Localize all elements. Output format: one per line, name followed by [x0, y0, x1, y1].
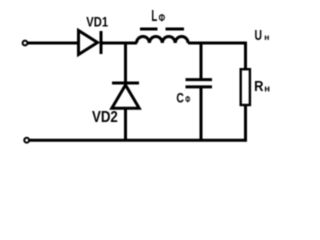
capacitor Cf top plate [186, 78, 213, 81]
wire VD2 to bottom [124, 108, 127, 140]
diode VD2 triangle [112, 85, 139, 108]
capacitor Cf bottom plate [186, 85, 213, 88]
svg-text:Ф: Ф [185, 94, 191, 105]
terminal top input [23, 41, 28, 46]
wire VD1 to inductor [101, 42, 137, 45]
terminal bottom input [24, 138, 29, 143]
diode VD1 [79, 31, 102, 55]
inductor core bar left [140, 28, 158, 31]
wire node to VD2 [124, 43, 127, 82]
svg-text:Ф: Ф [159, 12, 165, 25]
svg-text:VD2: VD2 [92, 109, 118, 126]
svg-text:н: н [264, 83, 270, 94]
diode VD2 cathode bar [112, 82, 139, 85]
svg-text:L: L [151, 7, 157, 25]
svg-text:н: н [264, 32, 269, 42]
wire node to capacitor [200, 43, 203, 79]
svg-text:C: C [176, 90, 184, 106]
wire input to VD1 [28, 42, 78, 45]
wire right rail to resistor [244, 42, 247, 69]
svg-text:VD1: VD1 [86, 14, 108, 29]
svg-text:R: R [254, 77, 263, 94]
inductor core bar right [166, 28, 185, 31]
inductor Lf winding [137, 37, 189, 43]
svg-text:U: U [255, 28, 262, 44]
bottom wire [30, 139, 247, 142]
resistor Rn [241, 69, 250, 105]
wire resistor to bottom [244, 105, 247, 142]
wire capacitor to bottom [200, 87, 203, 140]
wire inductor to right corner [188, 42, 247, 45]
